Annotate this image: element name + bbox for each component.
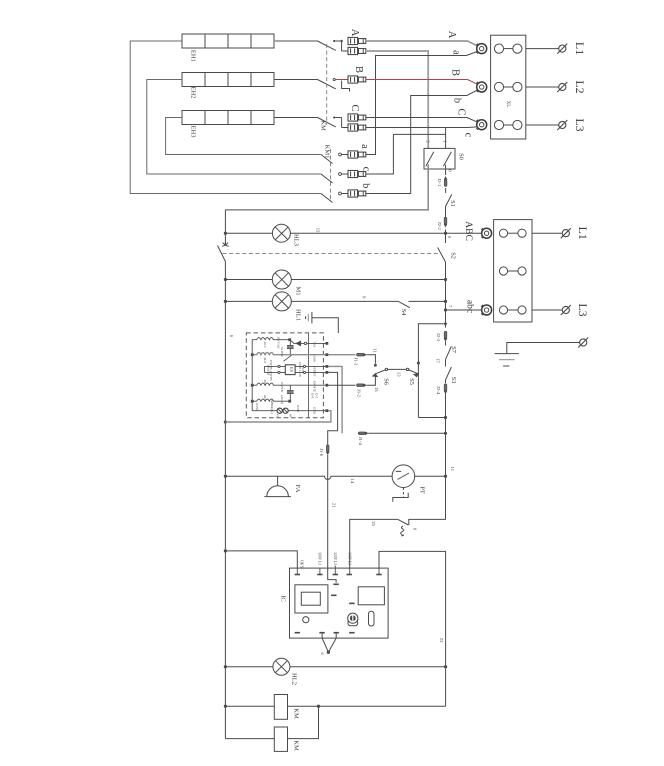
svg-text:S2: S2 xyxy=(450,252,457,259)
svg-text:IGN1: IGN1 xyxy=(255,403,259,411)
svg-text:KWTB: KWTB xyxy=(280,382,284,391)
svg-text:GND: GND xyxy=(296,405,300,413)
svg-text:EH3: EH3 xyxy=(190,126,197,138)
svg-text:14: 14 xyxy=(350,479,355,484)
svg-text:100V L1: 100V L1 xyxy=(318,552,322,565)
svg-text:L3: L3 xyxy=(573,118,587,131)
svg-text:140V L3: 140V L3 xyxy=(347,552,351,565)
svg-text:0: 0 xyxy=(448,169,453,172)
svg-text:J2-6: J2-6 xyxy=(311,393,315,399)
svg-text:S7: S7 xyxy=(450,346,457,354)
svg-text:B: B xyxy=(450,69,461,76)
svg-text:XL: XL xyxy=(505,101,510,108)
svg-text:b: b xyxy=(360,183,371,188)
svg-text:J2-2: J2-2 xyxy=(437,222,442,231)
svg-text:B: B xyxy=(353,66,364,73)
svg-text:15: 15 xyxy=(316,228,321,233)
svg-text:KM1: KM1 xyxy=(324,145,331,159)
svg-text:13: 13 xyxy=(397,372,402,377)
svg-text:LLBA: LLBA xyxy=(313,354,317,363)
svg-text:21: 21 xyxy=(332,503,337,508)
svg-text:GND: GND xyxy=(313,407,317,415)
svg-text:25: 25 xyxy=(371,521,376,526)
svg-text:θ: θ xyxy=(412,528,417,530)
svg-text:49-5: 49-5 xyxy=(263,342,267,348)
svg-text:L2: L2 xyxy=(573,80,587,93)
svg-text:J2-1: J2-1 xyxy=(437,178,442,187)
svg-text:23: 23 xyxy=(439,638,444,643)
svg-text:S0: S0 xyxy=(458,153,465,160)
svg-text:S4: S4 xyxy=(400,309,407,317)
svg-text:6: 6 xyxy=(447,236,452,239)
svg-text:J2-4: J2-4 xyxy=(436,386,441,395)
svg-text:17: 17 xyxy=(436,358,441,363)
svg-text:EH1: EH1 xyxy=(190,50,197,62)
svg-text:11: 11 xyxy=(373,348,378,353)
svg-text:S6: S6 xyxy=(383,378,390,386)
svg-text:S1: S1 xyxy=(449,200,456,207)
svg-text:LGB: LGB xyxy=(301,366,305,372)
svg-text:L1: L1 xyxy=(576,227,590,240)
svg-text:9: 9 xyxy=(361,296,366,299)
svg-text:PT: PT xyxy=(419,486,426,494)
svg-text:J1-3: J1-3 xyxy=(354,358,359,367)
svg-text:J1-2: J1-2 xyxy=(356,389,361,398)
svg-text:48: 48 xyxy=(289,414,293,418)
svg-text:T1A: T1A xyxy=(313,342,317,349)
svg-text:BY11AJ: BY11AJ xyxy=(277,337,281,349)
svg-text:S3: S3 xyxy=(450,377,457,384)
svg-text:J2-7: J2-7 xyxy=(315,393,319,399)
svg-text:a: a xyxy=(359,144,370,149)
svg-text:A: A xyxy=(446,31,457,39)
svg-text:6: 6 xyxy=(229,335,234,338)
svg-text:49-5: 49-5 xyxy=(263,395,267,401)
svg-text:ES: ES xyxy=(289,367,294,373)
svg-text:SL2BR: SL2BR xyxy=(280,347,284,357)
svg-text:MND(RL): MND(RL) xyxy=(270,400,274,414)
svg-text:J1-4: J1-4 xyxy=(358,437,363,446)
svg-text:49-8: 49-8 xyxy=(263,357,267,363)
svg-text:c: c xyxy=(361,167,372,172)
svg-text:7: 7 xyxy=(448,305,453,308)
svg-text:11: 11 xyxy=(450,467,455,472)
svg-text:J2-3: J2-3 xyxy=(436,333,441,342)
svg-text:PET: PET xyxy=(313,371,317,377)
svg-text:KM: KM xyxy=(293,708,300,719)
svg-text:abc: abc xyxy=(464,300,475,313)
svg-text:C: C xyxy=(456,108,467,115)
svg-text:b: b xyxy=(452,98,463,103)
svg-text:120V L1: 120V L1 xyxy=(333,552,337,565)
svg-text:HL1: HL1 xyxy=(295,309,302,321)
svg-text:θ: θ xyxy=(320,652,325,654)
svg-text:KWTB: KWTB xyxy=(269,371,273,380)
svg-text:EH2: EH2 xyxy=(190,87,197,99)
svg-text:HL2: HL2 xyxy=(291,673,298,685)
svg-text:FA: FA xyxy=(294,485,301,493)
svg-text:KM: KM xyxy=(320,120,327,131)
svg-text:KM: KM xyxy=(293,740,300,751)
svg-text:S5: S5 xyxy=(408,378,415,385)
svg-text:49-8: 49-8 xyxy=(263,380,267,386)
svg-text:L3: L3 xyxy=(576,303,590,316)
svg-text:KWNTE: KWNTE xyxy=(313,381,317,393)
svg-text:ABC: ABC xyxy=(463,221,474,241)
svg-text:a: a xyxy=(451,50,462,55)
svg-text:47: 47 xyxy=(276,414,280,418)
svg-text:15: 15 xyxy=(374,387,379,392)
svg-text:(ACB): (ACB) xyxy=(280,395,284,404)
svg-text:HL3: HL3 xyxy=(293,234,300,246)
svg-text:C: C xyxy=(349,104,360,111)
svg-text:M1: M1 xyxy=(295,286,302,295)
svg-text:c: c xyxy=(463,133,474,138)
svg-text:L1: L1 xyxy=(573,42,587,55)
svg-text:IC: IC xyxy=(280,595,287,602)
svg-text:OK'S: OK'S xyxy=(300,560,304,568)
svg-text:J1-6: J1-6 xyxy=(319,448,324,457)
svg-text:A: A xyxy=(349,29,360,37)
